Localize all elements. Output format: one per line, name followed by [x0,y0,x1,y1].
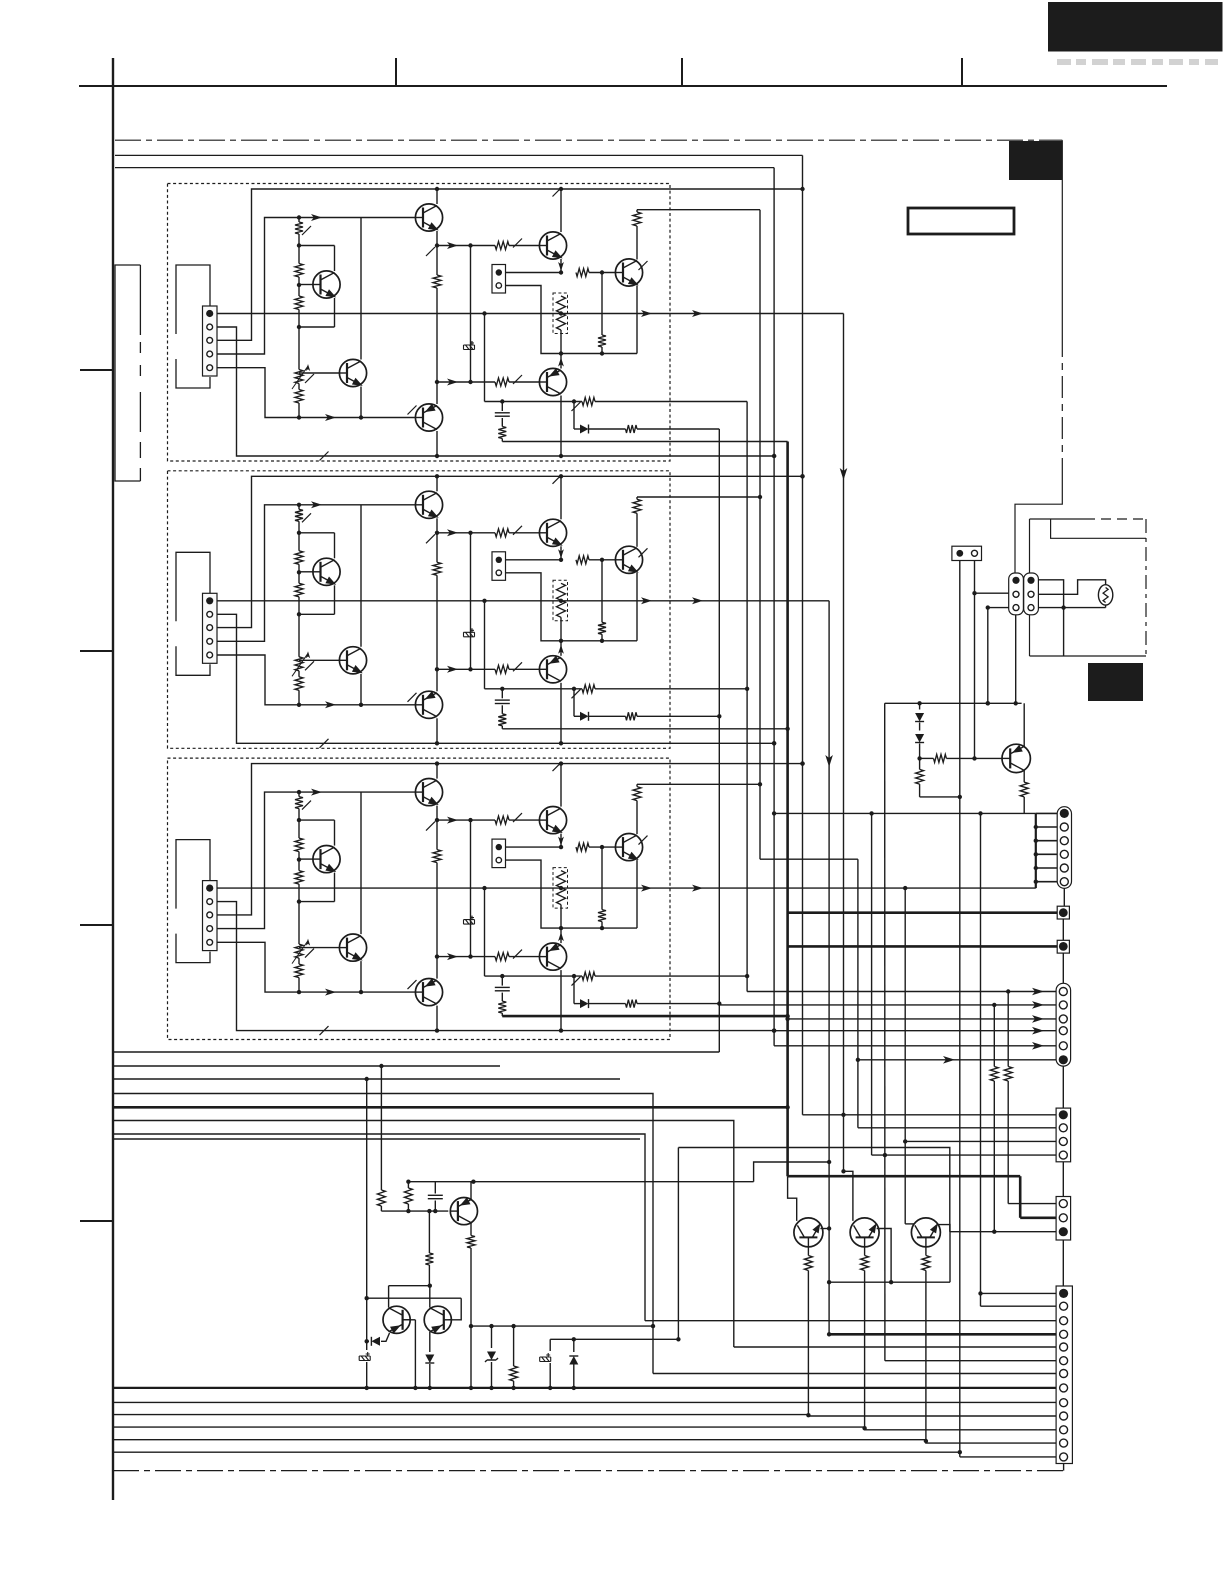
bottom row to CND pin 9 [113,1401,1056,1403]
wire Q5-Q6 emitter junction vertical [560,330,562,354]
transistor Q204 [415,691,442,718]
wire Q3 collector to top rail [436,764,438,779]
CNA pin 3 [1059,1015,1067,1023]
wire CN7 pin2 down [974,561,976,759]
jumper connector J21 body [492,552,506,581]
channel 3 dashed board outline [168,758,671,1039]
wire Q7 emitter [636,286,638,354]
wire channel 1 signal output [217,313,844,315]
wire Q1 base [299,284,313,286]
CND pin 6 [1060,1357,1068,1365]
jumper J21 pin 1 [496,557,502,563]
resistor R2 [295,551,303,565]
bus row 6 [113,1121,734,1348]
wire CND1 feed [981,1292,1057,1294]
transistor Q302 [339,934,366,961]
connector J20 pin 4 [207,638,213,644]
resistor R7 [495,953,509,961]
wire CNC1 feed [1008,1203,1056,1205]
supply rail V- top [115,167,774,169]
jumper J11 pin 2 [496,283,501,288]
CND pin 2 [1060,1302,1068,1310]
wire jumper pin1 to Q5 emitter [506,559,562,561]
resistor R14 [626,1000,638,1008]
resistor R2 [295,838,303,852]
transistor Q14 [850,1218,879,1247]
diode D8 [919,723,921,731]
CN9 pin 1 [1060,809,1069,818]
CNB pin 3 [1059,1137,1067,1145]
arrow into CNA pin 5 [1032,1042,1044,1050]
feedback vertical wire [470,820,472,957]
wire Q3 collector to top rail [436,189,438,204]
resistor R2 [295,264,303,278]
resistor R3 [295,871,303,885]
channel 3 input connector bracket [176,840,210,909]
wire Q15 base lead [938,1225,950,1283]
transistor Q306 [539,943,566,970]
wire emitter bus [561,927,637,929]
wire pin4 to bias rail [217,505,416,642]
wire channel 3 thick ground return [502,1015,787,1018]
bus wire vertical V2 [746,402,748,992]
wire emitter bus [561,640,637,642]
bus row 2 [113,1065,500,1067]
top tick mark 1 [395,58,397,86]
resistor R21 [920,757,934,759]
wire bias lower rail [920,796,960,798]
pcb outline dash-dot bottom border [113,1470,1065,1472]
thick bus row 5 [113,1106,788,1109]
resistor R14 [626,712,638,720]
wire pin2 to inner bottom rail [217,902,774,1031]
wire diode branch [573,689,575,717]
resistor divider chain channel 1 [298,218,300,223]
relay connector CN8L body [1009,573,1024,615]
diode D31 [580,999,589,1008]
bus row 4 [113,1094,653,1374]
connector J20 pin 2 [207,611,213,617]
resistor R10 vertical [601,847,603,910]
wire CN9 to E1 link [1063,888,1065,906]
wire pin4 to bias rail [217,218,416,355]
CNB pin 1 [1059,1110,1068,1119]
arrow into CNA pin 4 [1032,1027,1044,1035]
wire Q7 collector with resistor R11 [636,226,638,260]
wire diode branch [573,976,575,1004]
CN9 pin 5 [1060,864,1068,872]
speaker connector CN9 body [1057,807,1071,889]
wire Q8 emitter with resistor R22 [1023,770,1025,783]
thick ground wire to E2 [788,945,1058,948]
CNB pin 4 [1059,1151,1067,1159]
bus row 7 [113,1134,645,1321]
wire CNA to CNB link [1062,1066,1064,1108]
wire channel 2 output vertical drop [828,601,830,1335]
wire ground return [502,728,787,730]
wire jumper pin2 to lower node [506,286,562,354]
transistor Q301 [313,846,340,873]
resistor R4 [295,677,303,691]
CN8R pin 2 [1028,591,1034,597]
wire channel 3 signal output to ground bar [217,887,1036,889]
left tick mark 3 [80,924,113,926]
hop tick marks [302,513,311,522]
transistor Q106 [539,368,566,395]
channel 1 input connector bracket [176,265,210,334]
transistor Q304 [415,979,442,1006]
connector J10 body [203,306,218,376]
CND pin 8 [1060,1384,1068,1392]
driver circuit left vertical [366,1079,368,1350]
wire to relay connector left middle pin [975,592,1009,594]
bus wire vertical V1 [718,429,720,1052]
wire emitter sense row [829,1281,950,1283]
wire pin2 to inner bottom rail [217,327,774,456]
wire Q5 emitter [560,259,562,273]
capacitor C1 ceramic glyph [464,916,475,925]
wire collector feed rail [637,783,760,785]
arrow into CNA pin 1 [1032,988,1044,996]
CNC pin 2 [1059,1214,1067,1222]
CN9 pin 4 [1060,850,1068,858]
zobel capacitor C2 [501,689,503,699]
wire diff right leg to Q12 base [450,1298,462,1320]
resistor R9 to Q7 base [576,843,589,851]
connector J10 pin 5 [207,365,213,371]
wire Q5 collector to top rail [560,189,562,232]
wire Q2 collector emitter vertical [360,218,362,360]
resistor R12 [582,398,595,406]
resistor R1 [295,509,303,521]
page border left vertical line [112,58,114,1500]
page border top horizontal line [79,85,1167,87]
trimmer resistor VR1 [295,657,303,671]
wire mid vertical with resistor [436,246,438,276]
left tick mark 1 [80,369,113,371]
wire emitter bus [561,353,637,355]
wire Q2 base [299,659,340,661]
wire bias network left leg down to connector [884,703,886,1360]
connector J20 body [203,593,218,663]
resistor R6 [433,275,441,288]
diode D10 [367,1340,369,1342]
wire jumper pin1 to Q5 emitter [506,846,562,848]
transistor Q11 [383,1306,410,1333]
wire E1 to E2 link [1062,919,1064,940]
connector J30 pin 1 [206,885,213,892]
connector J10 pin 3 [207,337,213,343]
transistor Q307 [615,834,642,861]
transistor Q102 [339,359,366,386]
wire Q2 collector emitter vertical [360,505,362,647]
transistor Q13 [794,1218,823,1247]
wire ground return [502,441,787,443]
wire Q2 base [299,947,340,949]
arrow into CNA pin 3 [1032,1015,1044,1023]
wire zobel rail [485,401,583,403]
transistor Q207 [615,546,642,573]
resistor R31 vertical [993,1005,995,1067]
wire Q11 base to ground [403,1319,415,1321]
CN7 pin 2 [972,550,978,556]
wire Q15 emitter leg to pin row [925,1271,927,1440]
resistor R5 [495,529,509,537]
resistor R12 [582,685,595,693]
wire mid vertical with resistor [436,533,438,563]
wire chain node to Q1 branch [299,819,335,821]
connector CND body 13 pin [1056,1286,1072,1464]
transistor Q8 bias [1002,744,1030,772]
part number white box [908,208,1014,234]
wire Q1 emitter branch [299,901,335,903]
wire Q7 emitter [636,860,638,928]
capacitor C10 glyph [359,1352,370,1361]
capacitor C1 ceramic glyph [464,628,475,637]
channel 1 dashed board outline [168,184,671,462]
transistor Q101 [313,271,340,298]
speaker connector ground bar [1035,813,1037,888]
CN9 pin 1 stub [1036,812,1057,814]
pcb outline dash-dot right border going down to connector [1061,140,1063,335]
wire Q12 emitter with diode D11 [429,1332,431,1352]
wire Q5-Q6 emitter junction vertical [560,905,562,929]
wire Q5 collector to top rail [560,764,562,807]
CN8R pin 1 [1027,577,1034,584]
diode D11 [580,425,589,434]
wire diode branch [573,402,575,430]
CN9 pin 4 stub [1036,853,1057,855]
emitter resistor R8 in dashed box [553,293,568,334]
connector J30 pin 3 [207,912,213,918]
wire CN8R pin1 to frame [1038,580,1063,608]
CN9 pin 6 stub [1036,881,1057,883]
CN9 pin 2 [1060,823,1068,831]
zobel resistor R13 [498,427,506,439]
resistor R41 [407,1182,409,1188]
transistor Q105 [539,232,566,259]
connector CNC body [1056,1197,1071,1241]
wire CNA2 feed [719,1004,1056,1006]
resistor R12 [582,972,595,980]
wire Q5-Q6 emitter junction vertical [560,617,562,641]
resistor R52 [925,1247,927,1256]
E2 pin [1059,942,1068,951]
wire channel 2 signal output [217,600,829,602]
resistor R44 center leg [427,1209,431,1213]
wire driver collector rail [408,1181,753,1183]
zobel capacitor C2 [501,976,503,986]
resistor R14 [626,425,638,433]
capacitor C11 [434,1182,436,1194]
CNA pin 6 [1059,1055,1068,1064]
CND pin 4 [1060,1330,1068,1338]
thick wire CNC2 feed [788,1175,1021,1178]
connector J10 pin 1 [206,310,213,317]
wire relay frame stub [1063,608,1065,656]
connector J10 pin 4 [207,351,213,357]
wire Q7 emitter [636,573,638,641]
wire zobel rail [485,688,583,690]
resistor R6 [433,850,441,863]
wire Q10 collector [470,1182,472,1201]
resistor R4 [295,964,303,978]
wire chain node to Q1 branch [299,532,335,534]
wire to Q5 base [437,532,495,534]
wire CNB3 feed [904,888,906,1224]
wire CN7 pin1 down [959,561,961,797]
relay RY1 box outline [1030,518,1086,520]
transistor Q202 [339,647,366,674]
wire CNA1 feed [747,991,1056,993]
resistor R4 [295,390,303,404]
resistor R20 [916,769,924,784]
wire CND7 feed [653,1373,1056,1375]
wire speaker ground rail [774,812,1036,814]
resistor R40 [380,1066,382,1190]
zobel resistor R13 [498,714,506,726]
wire Q3 emitter down [436,518,438,533]
wire to Q6 base [437,956,495,958]
wire Q7 collector with resistor R11 [636,801,638,835]
resistor R51 [864,1247,866,1256]
transistor Q205 [539,519,566,546]
left shielded cable box [115,265,140,481]
wire Q2 base [299,372,340,374]
wire Q6 emitter to bottom rail [560,683,562,744]
resistor R6 [433,562,441,575]
CND pin 11 [1060,1426,1068,1434]
board name black label [1009,141,1062,180]
wire output node vertical [482,311,486,315]
wire CN8L bottom leg [1015,615,1017,704]
wire pin3 to top rail [217,189,803,340]
bottom row to CND pin 12 [113,1440,1056,1443]
wire CNB to CNC link [1062,1162,1064,1197]
bus row 3 [113,1078,620,1080]
top tick mark 2 [681,58,683,86]
left cable box right edge dash-dot [139,265,141,335]
transistor Q203 [415,491,442,518]
connector J30 pin 4 [207,926,213,932]
wire Q13 collector riser to ground bus [788,1176,797,1221]
transistor Q305 [539,807,566,834]
wire CND1/2 feed vertical [980,813,982,1306]
resistor R9 to Q7 base [576,269,589,277]
CNC pin 3 [1059,1227,1068,1236]
transistor Q10 [450,1198,477,1225]
wire relay connector left bottom pin [988,607,1009,609]
resistor divider chain channel 3 [298,792,300,797]
connector J20 pin 5 [207,652,213,658]
wire Q3 collector to top rail [436,476,438,491]
transistor Q15 [911,1218,940,1247]
connector J10 pin 2 [207,324,213,330]
relay coil lamp symbol [1098,585,1112,605]
wire collector feed rail [637,496,760,498]
wire CNC3 feed [950,1231,1056,1233]
wire Q2 collector emitter vertical [360,792,362,934]
trimmer resistor VR1 [295,370,303,384]
wire collector feed rail [637,209,760,211]
wire CNA3 feed [788,1018,1057,1020]
CND pin 12 [1060,1439,1068,1447]
wire pin5 to lower bias rail [217,942,416,992]
title block black label [1048,2,1223,52]
CN9 pin 5 stub [1036,867,1057,869]
jumper J21 pin 2 [496,570,501,575]
single pin connector E1 body [1057,906,1069,919]
wire CND2 feed [981,1305,1057,1307]
emitter resistor R8 in dashed box [553,868,568,909]
feedback vertical wire [470,533,472,670]
wire CND6 feed [885,1360,1056,1362]
resistor R7 [495,378,509,386]
CND pin 7 [1060,1370,1068,1378]
wire pin3 to top rail [217,764,803,915]
thick ground wire to E1 [788,911,1058,914]
wire CNB4 feed [871,813,873,1155]
left tick mark 4 [80,1220,113,1222]
transistor Q103 [415,204,442,231]
CN8L pin 1 [1012,577,1019,584]
channel 2 dashed board outline [168,471,671,749]
CN9 pin 2 stub [1036,826,1057,828]
capacitor C1 ceramic glyph [464,341,475,350]
transistor Q303 [415,779,442,806]
resistor R10 vertical [601,560,603,623]
wire CNC to CND link [1062,1240,1064,1286]
wire Q5 emitter [560,834,562,848]
transistor Q201 [313,558,340,585]
zobel capacitor C2 [501,402,503,412]
wire Q3 emitter down [436,806,438,821]
single pin connector E2 body [1057,940,1069,953]
wire ground return [502,1015,787,1017]
relay black label [1088,663,1143,701]
wire Q8 collector [1023,703,1025,747]
resistor R3 [295,583,303,597]
wire Q15 collector riser [905,1223,914,1225]
bus wire vertical V3 [759,210,761,860]
CN9 pin 6 [1060,878,1068,886]
resistor R9 to Q7 base [576,556,589,564]
wire output node vertical [482,886,486,890]
resistor R3 [295,296,303,310]
thick ground bus vertical [786,442,789,1177]
wire Q1 emitter branch [299,613,335,615]
E1 pin [1059,908,1068,917]
main bottom ground wire [113,1387,1056,1389]
pcb outline dash-dot top border [115,139,1062,141]
wire jumper pin1 to Q5 emitter [506,272,562,274]
connector J30 pin 2 [207,899,213,905]
CND pin 10 [1060,1412,1068,1420]
wire channel 1 output vertical drop [843,314,845,1115]
CNA pin 5 [1059,1042,1067,1050]
wire to Q5 base [437,245,495,247]
jumper J31 pin 2 [496,857,501,862]
CND pin 5 [1060,1343,1068,1351]
bus wire vertical V5 [802,155,804,1114]
wire Q4 emitter to bottom rail [436,1006,438,1031]
resistor R43 [513,1326,515,1366]
resistor R5 [495,816,509,824]
wire pin3 to top rail [217,476,803,627]
CN8R pin 3 [1028,605,1034,611]
CNA pin 1 [1059,988,1067,996]
transistor Q104 [415,404,442,431]
